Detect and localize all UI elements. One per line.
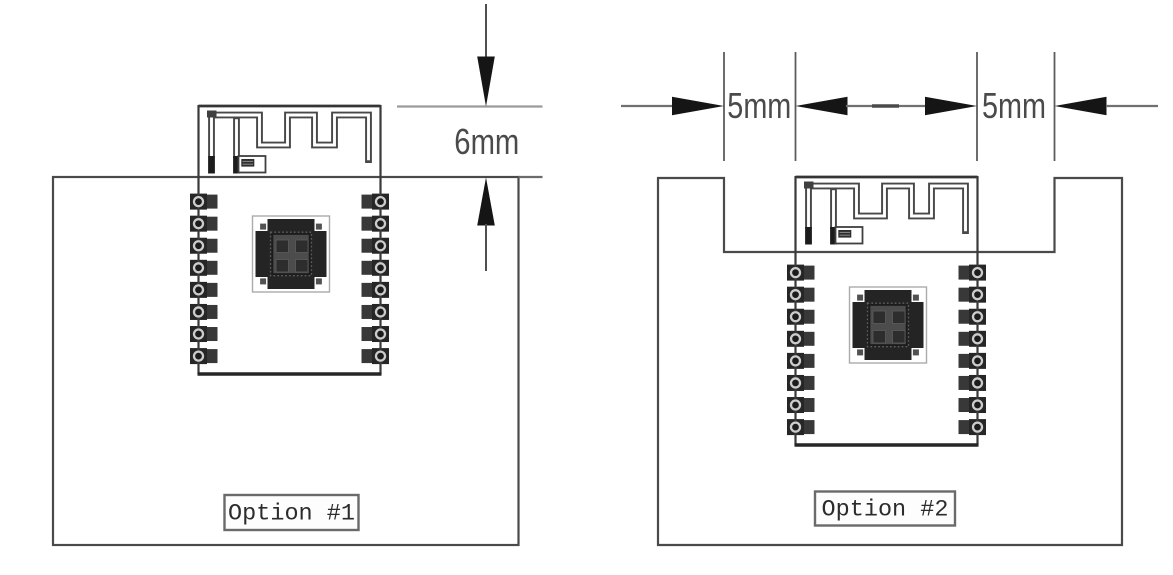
- module M2 chip die pad 1: [873, 311, 886, 324]
- module M1 chip U1 body: [256, 219, 327, 289]
- 6mm dimension up arrow: [477, 178, 495, 226]
- module M1 pad 6 plated hole: [194, 307, 203, 316]
- module M2 castellated pad 3 (left): [787, 309, 815, 325]
- module M1 castellated pad 13 (right): [362, 282, 390, 298]
- module M2 chip die pad 2: [893, 311, 906, 324]
- module M2 castellated pad 10 (right): [959, 287, 987, 303]
- module M1 castellated pad 8 (left): [190, 348, 218, 364]
- 6mm lower extension line from board edge: [519, 176, 543, 178]
- module M2 antenna ground stub trace: [830, 188, 837, 229]
- module M2 pad 15 plated hole: [973, 401, 982, 410]
- module M1 matching network component box: [239, 156, 266, 173]
- module M1 chip corner mark 3: [256, 277, 268, 289]
- module M2 chip die with lead ticks: [868, 303, 909, 347]
- module M1 pad 1 plated hole: [194, 197, 203, 206]
- module M1 pad 2 plated hole: [194, 219, 203, 228]
- module M1 chip corner mark 4: [315, 277, 327, 289]
- module M2 castellated pad 1 (left): [787, 265, 815, 281]
- module M2 castellated pad 11 (right): [959, 309, 987, 325]
- 6mm dimension upper leader line: [485, 4, 487, 60]
- module M2 chip die pad 4: [893, 331, 906, 344]
- right 5mm outer leader line: [1106, 105, 1158, 107]
- module M2 chip corner mark 1: [853, 290, 865, 302]
- left 5mm outer arrow pointing right: [672, 97, 724, 115]
- extension line notch left wall: [723, 52, 725, 161]
- module M2 castellated pad 12 (right): [959, 331, 987, 347]
- module M1 pad 7 plated hole: [194, 330, 203, 339]
- module M1 antenna feed solid pad: [208, 156, 215, 174]
- module M2 antenna ground solid pad: [830, 227, 837, 245]
- module M2 castellated pad 8 (left): [787, 419, 815, 435]
- module M2 castellated pad 6 (left): [787, 375, 815, 391]
- module M1 pad 8 plated hole: [194, 352, 203, 361]
- module M2 pad 16 plated hole: [973, 423, 982, 432]
- module M1 pad 16 plated hole: [376, 352, 385, 361]
- module M1 pad 9 plated hole: [376, 197, 385, 206]
- svg-text:5mm: 5mm: [982, 85, 1046, 126]
- module M1 pad 3 plated hole: [194, 241, 203, 250]
- module M2 castellated pad 9 (right): [959, 265, 987, 281]
- module M2 pad 8 plated hole: [791, 423, 800, 432]
- module M1 castellated pad 9 (right): [362, 194, 390, 210]
- module M1 castellated pad 3 (left): [190, 238, 218, 254]
- right 5mm outer arrow pointing left: [1055, 97, 1107, 115]
- module M1 castellated pad 10 (right): [362, 216, 390, 232]
- module M1 castellated pad 4 (left): [190, 260, 218, 276]
- module M2 castellated pad 4 (left): [787, 331, 815, 347]
- module M1 pad 4 plated hole: [194, 263, 203, 272]
- module M1 castellated pad 11 (right): [362, 238, 390, 254]
- module M2 pad 1 plated hole: [791, 268, 800, 277]
- module M2 antenna feed top mark: [804, 182, 814, 189]
- svg-text:Option #1: Option #1: [228, 501, 355, 528]
- module M1 castellated pad 12 (right): [362, 260, 390, 276]
- module M2 castellated pad 16 (right): [959, 419, 987, 435]
- module M2 chip die pad 3: [873, 331, 886, 344]
- module M1 shielded chip U1 outer outline: [253, 216, 330, 292]
- module M2 pad 11 plated hole: [973, 312, 982, 321]
- middle dimension arrow pointing right: [925, 97, 977, 115]
- module M2 pad 7 plated hole: [791, 401, 800, 410]
- module M2 pad 3 plated hole: [791, 312, 800, 321]
- module M1 chip die pad 3: [276, 260, 289, 273]
- module M2 castellated pad 7 (left): [787, 397, 815, 413]
- 6mm upper extension line from module edge: [397, 105, 543, 107]
- module M2 castellated pad 14 (right): [959, 375, 987, 391]
- module M2 pad 14 plated hole: [973, 378, 982, 387]
- module M1 castellated pad 16 (right): [362, 348, 390, 364]
- extension line module right edge: [976, 52, 978, 161]
- module M2 PCB antenna meander trace: [809, 186, 966, 234]
- svg-text:5mm: 5mm: [727, 85, 791, 126]
- module M2 castellated pad 13 (right): [959, 353, 987, 369]
- module M2 chip U2 body: [853, 290, 924, 360]
- module M1 antenna ground solid pad: [233, 156, 240, 174]
- module M1 chip die pad 2: [296, 240, 309, 253]
- module M1 outline frame: [198, 105, 382, 374]
- module M1 castellated pad 14 (right): [362, 304, 390, 320]
- middle dimension line break mark: [872, 104, 899, 107]
- module M1 pad 13 plated hole: [376, 285, 385, 294]
- module M1 castellated pad 6 (left): [190, 304, 218, 320]
- module M2 pad 5 plated hole: [791, 356, 800, 365]
- Option 1 host PCB outline: [53, 177, 519, 545]
- module M2 chip corner mark 3: [853, 348, 865, 360]
- module M2 chip corner mark 4: [912, 348, 924, 360]
- module M1 castellated pad 7 (left): [190, 326, 218, 342]
- 6mm dimension down arrow: [477, 57, 495, 107]
- module M1 pad 11 plated hole: [376, 241, 385, 250]
- module M2 pad 13 plated hole: [973, 356, 982, 365]
- module M2 castellated pad 5 (left): [787, 353, 815, 369]
- module M2 antenna feed solid pad: [805, 227, 812, 245]
- module M2 pad 4 plated hole: [791, 334, 800, 343]
- module M1 castellated pad 1 (left): [190, 194, 218, 210]
- module M1 castellated pad 15 (right): [362, 326, 390, 342]
- module M2 matching network component box: [836, 227, 863, 244]
- module M1 chip corner mark 2: [315, 219, 327, 231]
- module M1 chip corner mark 1: [256, 219, 268, 231]
- module M1 pad 14 plated hole: [376, 307, 385, 316]
- module M2 shielded chip U2 outer outline: [850, 287, 927, 363]
- left 5mm outer leader line: [621, 105, 673, 107]
- middle dimension line: [846, 105, 926, 107]
- module M2 pad 10 plated hole: [973, 290, 982, 299]
- module M1 chip die pad 1: [276, 240, 289, 253]
- extension line notch right wall: [1054, 52, 1056, 161]
- module M2 castellated pad 15 (right): [959, 397, 987, 413]
- module M1 pad 10 plated hole: [376, 219, 385, 228]
- module M2 pad 9 plated hole: [973, 268, 982, 277]
- module M1 PCB antenna meander trace: [212, 115, 369, 163]
- module M2 pad 2 plated hole: [791, 290, 800, 299]
- module M2 pad 6 plated hole: [791, 378, 800, 387]
- Option 2 host PCB outline with antenna notch: [658, 178, 1122, 545]
- module M2 chip corner mark 2: [912, 290, 924, 302]
- module M1 castellated pad 2 (left): [190, 216, 218, 232]
- module M2 outline frame: [795, 176, 979, 445]
- svg-text:6mm: 6mm: [454, 121, 519, 162]
- module M1 pad 5 plated hole: [194, 285, 203, 294]
- module M1 chip die with lead ticks: [271, 232, 312, 276]
- middle dimension arrow pointing left: [796, 97, 848, 115]
- Option 1 label box: [225, 495, 359, 530]
- svg-text:Option #2: Option #2: [822, 497, 949, 524]
- module M1 antenna ground stub trace: [233, 117, 240, 158]
- Option 2 label box: [815, 492, 955, 526]
- module M1 castellated pad 5 (left): [190, 282, 218, 298]
- module M1 chip die pad 4: [296, 260, 309, 273]
- module M1 pad 15 plated hole: [376, 330, 385, 339]
- extension line module left edge: [795, 52, 797, 161]
- module M2 pad 12 plated hole: [973, 334, 982, 343]
- module M1 pad 12 plated hole: [376, 263, 385, 272]
- module M1 antenna feed top mark: [207, 111, 217, 118]
- 6mm dimension lower leader line: [485, 224, 487, 271]
- module M2 castellated pad 2 (left): [787, 287, 815, 303]
